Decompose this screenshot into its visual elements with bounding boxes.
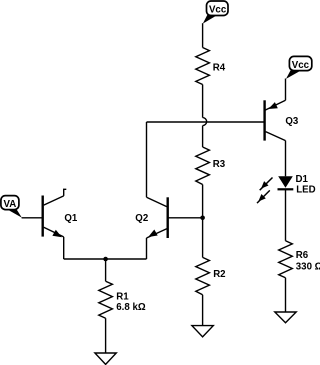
net label Vcc (top) xyxy=(203,1,228,24)
diode D1 LED triangle xyxy=(278,176,293,188)
resistor R1 xyxy=(99,281,113,318)
svg-text:R1: R1 xyxy=(116,291,129,302)
svg-text:R2: R2 xyxy=(213,269,225,280)
wire LED to R6 xyxy=(285,189,287,241)
svg-text:Vcc: Vcc xyxy=(292,60,310,71)
transistor Q2 (NPN, mirrored) xyxy=(147,197,203,238)
wire Q3 collector to LED xyxy=(285,141,287,177)
wire R4 to hop xyxy=(202,85,204,118)
node emitter junction dot xyxy=(103,257,108,262)
wire Vcc to Q3 emitter xyxy=(285,79,287,101)
svg-text:330 Ω: 330 Ω xyxy=(296,261,320,272)
resistor R2 xyxy=(196,257,210,294)
svg-text:6.8 kΩ: 6.8 kΩ xyxy=(116,302,146,313)
ground (left) xyxy=(95,353,116,364)
transistor Q1 (NPN) xyxy=(43,196,64,238)
ground (middle) xyxy=(192,326,213,337)
label R1 value 6.8 kOhm xyxy=(116,291,146,313)
wire Q2 collector vertical xyxy=(146,122,148,197)
wire R6 to ground xyxy=(285,278,287,312)
resistor R4 xyxy=(196,48,210,85)
ground (right) xyxy=(275,312,296,323)
net label Vcc (right) xyxy=(286,56,312,79)
resistor R3 xyxy=(196,147,210,185)
wire VA to Q1 base xyxy=(22,217,43,219)
wire Q1 collector stub xyxy=(63,189,65,196)
wire R2 to ground xyxy=(202,295,204,326)
diode D1 cathode bar xyxy=(278,188,294,190)
wire Q2 collector to Q3 base xyxy=(147,121,265,123)
svg-text:VA: VA xyxy=(4,199,17,210)
wire Q1 emitter down xyxy=(63,237,65,259)
svg-text:Q1: Q1 xyxy=(64,213,78,224)
wire Vcc to R4 xyxy=(202,23,204,47)
LED light arrow 2 xyxy=(257,190,270,203)
svg-text:Vcc: Vcc xyxy=(209,5,227,16)
svg-text:R6: R6 xyxy=(296,250,309,261)
svg-text:R4: R4 xyxy=(213,63,226,74)
wire divider node to R2 xyxy=(202,218,204,258)
label R6 value xyxy=(296,250,320,272)
transistor Q3 (PNP) xyxy=(265,100,286,140)
wire hop to R3 xyxy=(202,126,204,147)
svg-text:Q2: Q2 xyxy=(135,213,148,224)
svg-text:Q3: Q3 xyxy=(285,116,299,127)
LED light arrow 1 xyxy=(260,178,273,191)
wire node to R1 xyxy=(105,259,107,281)
wire R1 to ground xyxy=(105,318,107,353)
net label VA xyxy=(1,196,22,218)
label D1 LED xyxy=(296,174,316,195)
wire hop over crossing xyxy=(203,118,207,126)
resistor R6 value 330 Ohm xyxy=(279,241,293,278)
svg-text:LED: LED xyxy=(296,184,315,195)
node divider junction dot xyxy=(200,216,205,221)
svg-text:R3: R3 xyxy=(213,159,226,170)
wire Q2 emitter down xyxy=(146,238,148,259)
wire common emitter rail xyxy=(64,258,147,260)
wire R3 to divider node xyxy=(202,185,204,218)
